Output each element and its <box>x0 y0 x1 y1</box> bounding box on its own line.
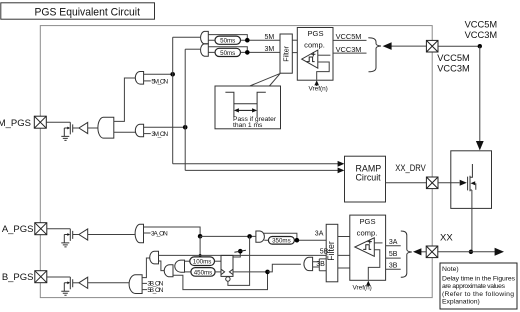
wire trunk2 to delay gate t2 <box>185 48 200 50</box>
MOSFET Q1 <box>468 164 476 191</box>
wire domeB to 100ms oval <box>185 260 190 262</box>
stub label 3A_ON <box>144 232 151 234</box>
wire splitter M out1 up to 5M_ON gate <box>114 78 136 121</box>
trunk1 wire 5M_ON vertical <box>172 37 174 164</box>
FF clock wedge right <box>229 269 233 274</box>
PGS comp box bottom <box>350 215 386 280</box>
node dot VCC <box>478 44 482 48</box>
PGS comp box top <box>297 28 333 81</box>
delay dome t1 <box>201 31 209 44</box>
hysteresis glyph U2 <box>363 245 371 250</box>
arrow left XX to brace <box>413 248 426 255</box>
flipflop box <box>221 255 233 276</box>
wire clock node jog to 3B gate <box>268 264 301 272</box>
clamp transistor A <box>64 229 72 243</box>
svg-text:Filter: Filter <box>281 45 290 62</box>
comparator U1 <box>302 50 318 68</box>
wire filter to PGS comp 5M <box>292 39 297 41</box>
wire 3A dome out to node <box>144 227 201 236</box>
dome1 splitter <box>150 251 159 264</box>
svg-text:5B_ON: 5B_ON <box>147 287 163 294</box>
svg-text:VCC5M: VCC5M <box>465 20 498 30</box>
plus input wire U1 <box>318 54 331 56</box>
node dot t2 <box>245 50 250 55</box>
3M_ON dome <box>135 124 143 136</box>
VCC3M out line <box>333 52 367 54</box>
bypass wire t1 <box>208 35 247 41</box>
svg-text:3B: 3B <box>389 262 398 269</box>
delay oval 50ms t2 <box>215 48 241 56</box>
wire trunk1 to delay gate t1 <box>173 36 200 38</box>
clamp transistor M <box>64 122 72 136</box>
node dot 5M_ON trunk1 <box>170 72 175 77</box>
svg-text:Delay time in the Figures: Delay time in the Figures <box>442 275 516 282</box>
svg-text:50ms: 50ms <box>220 38 235 45</box>
wire splitter M out2 to 3M_ON gate <box>114 131 136 133</box>
svg-text:A_PGS: A_PGS <box>2 224 34 235</box>
splitter dome M <box>98 117 114 138</box>
FF clock wedge left <box>221 269 225 274</box>
wire triangle B to B dome <box>88 282 130 284</box>
XX_DRV pin square <box>426 177 438 189</box>
arrow down into driver box <box>476 141 484 150</box>
RAMP circuit box <box>345 156 386 202</box>
feedback wire U2 <box>368 250 380 280</box>
svg-text:100ms: 100ms <box>193 259 212 266</box>
node dot 3A corner <box>198 234 203 239</box>
feedback wire U1 <box>317 62 330 80</box>
svg-text:450ms: 450ms <box>194 269 213 276</box>
100ms oval <box>190 257 215 266</box>
node dot 3M_ON trunk2 <box>183 125 188 130</box>
svg-text:(Refer to the following: (Refer to the following <box>442 291 514 298</box>
node dot clock <box>265 270 270 275</box>
wire 3A node down to 5B line <box>199 236 201 255</box>
svg-text:Note): Note) <box>442 266 459 273</box>
callout box pass if greater <box>215 86 281 129</box>
stub label 3M_ON <box>144 133 151 135</box>
wire XX_DRV to gate arrow <box>438 180 467 186</box>
delay oval 50ms t1 <box>215 36 241 44</box>
350ms dome <box>256 231 265 242</box>
bar join <box>318 259 320 271</box>
wire XX line right arrow <box>438 248 504 256</box>
M_PGS pin square <box>34 116 46 128</box>
hysteresis glyph U1 <box>307 57 315 62</box>
FF top stub to switch <box>233 251 240 257</box>
wire A_PGS to clamp <box>47 228 71 230</box>
node dot 350ms <box>295 238 300 243</box>
wire 450ms to FF <box>215 271 221 273</box>
B dome <box>129 275 142 294</box>
VCC5M out line <box>333 39 367 41</box>
stub label 5B_ON <box>142 289 147 291</box>
VCC pin square <box>426 40 438 52</box>
450ms oval <box>191 268 215 277</box>
ground M <box>61 136 69 140</box>
wires filter2 to PGS2 <box>338 237 350 269</box>
plus sign U1 <box>311 52 315 56</box>
waveform pulse <box>225 92 265 117</box>
A_PGS pin square <box>35 223 47 235</box>
buffer triangle B <box>79 277 88 288</box>
wire channel to triangle A <box>73 234 79 236</box>
wire 100ms to FF <box>215 260 222 262</box>
svg-text:PGS: PGS <box>359 217 375 226</box>
plus sign U2 <box>368 240 372 244</box>
stub label 5M_ON <box>144 80 151 82</box>
svg-text:VCC5M: VCC5M <box>437 53 470 63</box>
title box <box>1 3 155 19</box>
wire dome1 out2 to domeA <box>159 261 165 271</box>
wire B_PGS to clamp <box>47 276 71 278</box>
svg-text:PGS Equivalent Circuit: PGS Equivalent Circuit <box>35 7 141 19</box>
svg-text:XX_DRV: XX_DRV <box>395 163 426 173</box>
node dot XX <box>469 250 473 254</box>
3B dome <box>304 257 313 270</box>
PGS2 out lines <box>386 246 401 269</box>
switch tick <box>234 250 246 252</box>
svg-text:M_PGS: M_PGS <box>0 118 31 129</box>
wire 350ms through <box>264 239 326 241</box>
wire filter to PGS comp 3M <box>292 52 297 54</box>
ground A <box>61 243 69 247</box>
wire B dome up to dome1 <box>142 258 150 278</box>
svg-text:Vref(n): Vref(n) <box>353 285 372 292</box>
junction dot on 5B line <box>199 254 202 257</box>
wire VCC square to node <box>438 45 480 47</box>
bar to filter lines <box>319 259 326 271</box>
bypass wire 350ms <box>263 233 297 240</box>
wire 5M_ON to trunk1 <box>144 73 173 75</box>
ground B <box>61 291 69 295</box>
wire t1 through oval <box>208 39 280 41</box>
svg-text:5M: 5M <box>265 34 275 41</box>
trunk2 wire 3M_ON vertical <box>184 49 186 170</box>
wire 3A node to 350ms gate <box>200 235 256 237</box>
Vref arrow U2 <box>366 281 371 287</box>
svg-text:XX: XX <box>440 233 453 244</box>
domeB <box>175 260 185 272</box>
svg-text:Circuit: Circuit <box>356 173 382 183</box>
plus input wire U2 <box>374 242 382 244</box>
wire channel to triangle <box>73 127 79 129</box>
FF clock line to node <box>233 271 268 273</box>
wire domeA bottom to clock node <box>173 272 268 290</box>
350ms oval <box>268 237 294 245</box>
svg-text:3M_ON: 3M_ON <box>151 131 168 138</box>
RAMP input arrow 1 <box>173 161 345 167</box>
brace top <box>368 38 381 72</box>
svg-text:VCC5M: VCC5M <box>336 32 362 41</box>
filter box bottom <box>326 224 338 281</box>
svg-text:Vref(n): Vref(n) <box>309 86 328 93</box>
wire MOSFET source down to XX node <box>471 190 473 252</box>
wire RAMP to XX_DRV square <box>386 182 427 184</box>
measure arrow double <box>234 108 257 112</box>
main circuit border <box>40 26 432 298</box>
delay dome t2 <box>201 44 209 57</box>
filter box top <box>280 34 292 73</box>
svg-text:than 1 ms: than 1 ms <box>233 122 263 129</box>
svg-text:VCC3M: VCC3M <box>437 63 470 73</box>
XX pin square <box>426 246 438 258</box>
driver MOSFET box <box>451 151 492 209</box>
wire 3M_ON to trunk2 <box>144 126 186 128</box>
svg-text:3A: 3A <box>315 230 324 237</box>
svg-text:PGS: PGS <box>307 29 323 38</box>
node dot 3A mid <box>247 234 252 239</box>
svg-text:3M: 3M <box>265 46 275 53</box>
wire dome1 out1 5B long line <box>159 254 327 256</box>
svg-text:comp.: comp. <box>357 228 378 237</box>
brace bottom <box>401 231 412 277</box>
3A_ON dome <box>135 224 143 243</box>
svg-text:50ms: 50ms <box>220 50 235 57</box>
svg-text:Explanation): Explanation) <box>442 299 480 306</box>
B_PGS pin square <box>35 271 47 283</box>
note box <box>440 263 517 309</box>
callout leader lines <box>250 73 280 86</box>
bypass wire t2 <box>208 47 247 53</box>
svg-text:comp.: comp. <box>304 41 325 50</box>
buffer triangle M <box>79 122 88 133</box>
Vref arrow U1 <box>314 80 319 86</box>
svg-text:3B: 3B <box>316 261 325 268</box>
svg-text:VCC3M: VCC3M <box>465 30 498 40</box>
clamp transistor B <box>64 277 72 291</box>
3B dome stubs to bar <box>313 262 320 267</box>
svg-text:3A: 3A <box>389 239 398 246</box>
domeA <box>164 265 173 277</box>
FF inverted output circle <box>226 277 230 281</box>
svg-text:Filter: Filter <box>326 241 336 261</box>
wire VCC node down to driver box <box>479 46 481 141</box>
buffer triangle A <box>79 229 88 240</box>
wire domeB to 450ms oval <box>185 271 191 273</box>
5M_ON dome <box>135 72 143 85</box>
wire triangle A to 3A dome <box>88 234 135 236</box>
node dot t1 <box>245 38 250 43</box>
wire M_PGS to clamp <box>46 121 70 123</box>
RAMP input arrow 2 <box>185 168 344 174</box>
svg-text:VCC3M: VCC3M <box>336 45 362 54</box>
wire t2 through oval <box>208 51 280 53</box>
wire triangle to splitter M <box>88 127 98 129</box>
stub label 3B_ON <box>142 282 147 284</box>
svg-text:are approximate values: are approximate values <box>442 283 506 290</box>
comparator U2 <box>355 238 375 256</box>
switch node dot <box>238 249 243 254</box>
wire channel to triangle B <box>73 282 79 284</box>
svg-text:5M_ON: 5M_ON <box>151 78 168 85</box>
svg-text:5B: 5B <box>389 251 398 258</box>
svg-text:3A_ON: 3A_ON <box>151 230 168 237</box>
arrow left VCC <box>383 42 427 50</box>
svg-text:350ms: 350ms <box>272 238 291 245</box>
wire node down to FF reset loop <box>228 236 250 285</box>
svg-text:B_PGS: B_PGS <box>2 272 34 283</box>
